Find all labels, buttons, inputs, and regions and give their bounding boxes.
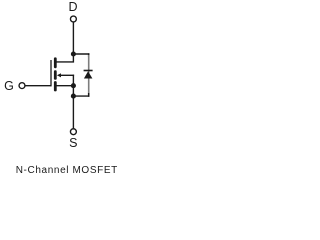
- wire body/source vertical: [72, 75, 74, 129]
- wire diode branch top corner stub: [88, 53, 90, 57]
- wire drain elbow to channel top bar: [57, 54, 74, 62]
- gate vertical line: [50, 60, 52, 86]
- mosfet channel middle bar (body): [54, 70, 57, 80]
- svg-text:D: D: [68, 0, 77, 14]
- svg-text:G: G: [4, 79, 14, 93]
- wire source horizontal (bottom bar to node): [57, 85, 74, 87]
- wire diode branch vertical (gray): [88, 55, 90, 95]
- svg-text:S: S: [69, 136, 77, 150]
- wire diode branch bottom horizontal: [73, 95, 89, 97]
- node source junction dot: [71, 83, 76, 88]
- wire diode branch bottom corner stub: [88, 93, 90, 97]
- node drain junction dot: [71, 51, 76, 56]
- node diode-return junction dot: [71, 94, 76, 99]
- wire gate lead: [25, 85, 51, 87]
- mosfet channel top bar (drain): [54, 57, 57, 68]
- terminal circle S: [70, 129, 76, 135]
- body diode cathode bar: [84, 70, 93, 72]
- mosfet channel bottom bar (source): [54, 81, 57, 91]
- wire diode branch top horizontal: [73, 53, 89, 55]
- body arrow (pointing to channel): [57, 73, 61, 77]
- body diode triangle: [84, 71, 93, 78]
- terminal circle D: [70, 16, 76, 22]
- wire drain vertical (D circle to junction): [72, 22, 74, 54]
- wire body arrow tail: [61, 74, 75, 76]
- terminal circle G: [19, 83, 25, 89]
- svg-text:N-Channel MOSFET: N-Channel MOSFET: [16, 165, 118, 176]
